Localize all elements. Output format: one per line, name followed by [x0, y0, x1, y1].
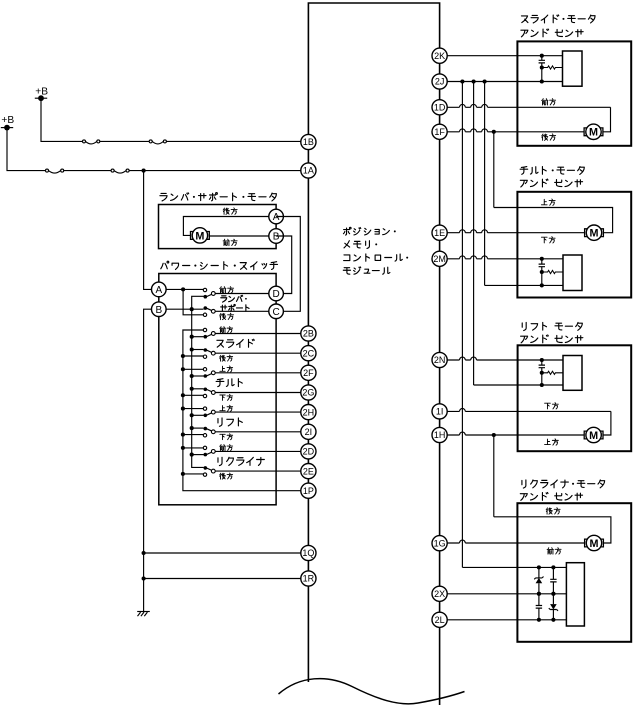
wire pin 1G recliner forward: [440, 540, 585, 543]
wire bus A lumbar to rear contact: [183, 289, 203, 314]
label recliner motor line1: [522, 480, 605, 488]
connector pin 2G: [301, 385, 316, 400]
junction recliner top right: [551, 565, 555, 569]
wire bus A to lift 下方 contact: [183, 434, 203, 436]
connector pin A lumbar: [269, 209, 284, 224]
connector pin 2C: [301, 346, 316, 361]
capacitor C slide sensor: [539, 60, 545, 63]
wire bus 2J-a vertical: [461, 82, 463, 568]
switch slide 後方: [203, 348, 215, 358]
position memory control module U1 box: [308, 3, 439, 705]
wire lumbar A to motor: [183, 217, 276, 236]
capacitor C1 recliner plates: [536, 606, 542, 609]
junction bus B lift top: [190, 413, 194, 417]
connector pin 2E: [301, 464, 316, 479]
svg-text:D: D: [272, 289, 279, 300]
connector pin C switch: [269, 304, 284, 319]
svg-text:B: B: [155, 305, 162, 316]
label module line3: [344, 254, 409, 261]
zener diode ZD1 recliner: [534, 567, 543, 593]
label lift motor line2: [521, 335, 583, 343]
label 前方: [220, 327, 233, 333]
slide motor and sensor box: [517, 41, 631, 145]
power seat switch box: [159, 274, 276, 505]
switch lift 下方: [203, 427, 215, 437]
wire bus 2J-c vertical: [484, 82, 486, 286]
wire lumbar rear pivot to C: [215, 310, 276, 312]
svg-text:2L: 2L: [435, 615, 445, 625]
label rearward recliner: [546, 508, 560, 514]
switch lift 上方: [203, 407, 215, 417]
battery feed +B2: [1, 115, 15, 130]
wire pin 1H lift up: [440, 432, 585, 435]
connector pin 2M: [432, 251, 447, 266]
fuse F4: [111, 169, 129, 173]
svg-text:2G: 2G: [302, 388, 314, 398]
switch tilt 下方: [203, 388, 215, 398]
connector pin 2F: [301, 365, 316, 380]
svg-text:1G: 1G: [434, 538, 446, 548]
label forward lumbar: [223, 239, 237, 245]
wire bus B to tilt 下方 moving: [192, 388, 204, 390]
label lumbar support motor: [160, 193, 277, 201]
label module line2: [344, 241, 377, 249]
junction bus B slide bottom: [190, 347, 194, 351]
svg-text:M: M: [195, 230, 204, 242]
svg-text:1B: 1B: [303, 137, 314, 147]
label slide motor line1: [521, 15, 595, 23]
svg-text:2J: 2J: [435, 77, 445, 87]
label rearward: [220, 313, 234, 319]
wire bus A to tilt 上方 contact: [183, 368, 203, 370]
connector pin 2J: [432, 74, 447, 89]
wire tilt 下方 pivot to pin 2G: [215, 392, 308, 394]
switch tilt 上方: [203, 368, 215, 378]
svg-text:M: M: [590, 538, 599, 550]
capacitor C1 recliner: [538, 594, 540, 606]
wire pin 1D slide forward: [440, 104, 611, 107]
slide sensor column: [541, 56, 543, 61]
junction bus B tilt top: [190, 374, 194, 378]
junction +B feed to switch: [142, 169, 146, 173]
connector pin 1H: [432, 427, 447, 442]
svg-text:2H: 2H: [303, 407, 315, 417]
label slide motor line2: [521, 29, 583, 37]
wire slide 前方 pivot to pin 2B: [215, 333, 308, 335]
svg-text:M: M: [589, 127, 598, 139]
junction bus B slide top: [190, 335, 194, 339]
resistor R lift sensor wiper: [542, 371, 563, 374]
label down tilt: [541, 237, 555, 243]
wire pin 2K to slide sensor: [440, 55, 563, 57]
motor M slide: [584, 124, 603, 139]
junction recliner mid left: [537, 592, 541, 596]
wire switch pin B to ground: [144, 309, 159, 611]
wire +B1 to pin 1B seg3: [166, 140, 308, 142]
connector pin 1I: [432, 404, 447, 419]
fuse F2: [149, 140, 166, 144]
connector pin 2H: [301, 405, 316, 420]
connector pin B switch: [152, 302, 167, 317]
label up lift: [545, 439, 559, 445]
svg-text:A: A: [155, 285, 162, 296]
wire bus B moving contacts: [192, 309, 204, 467]
wire lumbar B to motor: [209, 235, 276, 237]
wire lift 上方 pivot to pin 2H: [215, 411, 308, 413]
junction recliner top left: [537, 565, 541, 569]
connector pin 2X: [432, 586, 447, 601]
svg-text:+B: +B: [1, 115, 14, 126]
wire bus 2J-c to tilt sensor bottom: [485, 284, 563, 286]
connector pin 1A: [301, 163, 316, 178]
wire recliner 前方 pivot to pin 2D: [215, 450, 308, 452]
svg-text:1D: 1D: [434, 103, 446, 113]
junction lift sensor bottom: [540, 383, 544, 387]
svg-text:1R: 1R: [303, 574, 315, 584]
wire pin 2J to slide sensor: [440, 81, 563, 83]
connector pin 1F: [432, 124, 447, 139]
label tilt motor line1: [520, 167, 584, 175]
junction tilt sensor bottom: [540, 283, 544, 287]
label lift motor line1: [522, 322, 582, 330]
label 下方: [220, 394, 233, 400]
wire pin 1I lift down: [440, 409, 611, 412]
lumbar support motor box: [159, 205, 277, 249]
wire bus 1H recliner-rear vertical: [493, 435, 495, 517]
wire lumbar A to switch C: [276, 217, 300, 312]
resistor R slide sensor wiper: [542, 66, 563, 69]
label module line4: [343, 267, 390, 274]
wire pin 2M to tilt sensor: [440, 256, 563, 259]
wire +B1 to pin 1B seg2: [100, 140, 149, 142]
zener diode ZD2 recliner: [549, 594, 558, 620]
switch recliner 後方: [203, 466, 215, 476]
wire bus 2J-b to lift sensor bottom: [474, 384, 563, 386]
svg-text:1I: 1I: [436, 407, 444, 417]
connector pin 2D: [301, 444, 316, 459]
svg-text:1P: 1P: [303, 486, 314, 496]
svg-text:2K: 2K: [434, 51, 445, 61]
junction bus A tilt bottom: [181, 393, 185, 397]
ground symbol: [137, 612, 150, 617]
wire A row to lumbar fwd contact: [159, 288, 204, 290]
lift motor and sensor box: [518, 345, 632, 451]
connector pin A switch: [152, 282, 167, 297]
connector pin B lumbar: [269, 229, 284, 244]
svg-text:2D: 2D: [303, 447, 315, 457]
wire bus A to tilt 下方 contact: [183, 394, 203, 396]
junction bus A lumbar: [181, 287, 185, 291]
switch recliner 前方: [203, 446, 215, 456]
junction bus B lumbar: [190, 307, 194, 311]
capacitor C2 recliner plates: [550, 579, 556, 582]
junction bus A recliner bottom: [181, 472, 185, 476]
wire bus B to recliner 前方 moving: [192, 454, 204, 456]
connector pin 2B: [301, 326, 316, 341]
label power seat switch: [161, 261, 278, 269]
connector pin 1P: [301, 483, 316, 498]
label module line1: [343, 227, 395, 235]
svg-text:2M: 2M: [433, 254, 446, 264]
connector pin 1B: [301, 134, 316, 149]
label rearward lumbar: [223, 208, 237, 214]
connector pin 2K: [432, 48, 447, 63]
svg-text:1F: 1F: [434, 127, 445, 137]
connector pin 1D: [432, 100, 447, 115]
wire bus B to slide 前方 moving: [192, 336, 204, 338]
wire +B2 to pin 1A seg1: [7, 128, 46, 171]
label up tilt: [541, 199, 555, 205]
label tilt motor line2: [520, 179, 582, 187]
wire +B2 to pin 1A seg3: [129, 170, 308, 172]
label down lift: [545, 403, 559, 409]
wire pin 1E tilt down: [440, 230, 585, 233]
capacitor C lift sensor: [539, 365, 545, 368]
wire slide forward down to motor: [603, 107, 611, 132]
junction 1R: [142, 576, 146, 580]
recliner motor and sensor box: [517, 503, 631, 642]
svg-text:A: A: [273, 212, 280, 223]
svg-text:B: B: [273, 232, 280, 243]
wire to pin 1Q: [144, 552, 308, 554]
connector pin 1R: [301, 571, 316, 586]
wire pin 2X to recliner sensor: [440, 593, 567, 595]
tilt motor and sensor box: [517, 192, 631, 298]
resistor R tilt sensor wiper: [542, 270, 563, 273]
label rearward slide: [542, 134, 556, 140]
junction bus A lift bottom: [181, 433, 185, 437]
svg-text:2C: 2C: [303, 348, 315, 358]
label group recliner: [218, 457, 264, 465]
switch slide 前方: [203, 328, 215, 338]
switch lumbar rearward: [203, 306, 215, 316]
wire lift down to motor: [603, 411, 611, 435]
junction bus B lift bottom: [190, 426, 194, 430]
wire bus B to slide 後方 moving: [192, 349, 204, 351]
label forward slide: [542, 99, 556, 105]
label group lift: [218, 418, 242, 426]
svg-text:2E: 2E: [303, 466, 314, 476]
lift sensor column: [541, 360, 543, 365]
svg-text:M: M: [590, 228, 599, 240]
label 後方: [220, 355, 233, 361]
wire bus A to recliner 後方 contact: [183, 473, 203, 475]
label 上方: [220, 405, 233, 411]
svg-text:2F: 2F: [303, 368, 314, 378]
motor M lumbar: [191, 228, 210, 243]
fuse F3: [46, 169, 64, 173]
wire bus 2J-a to recliner sensor top: [462, 566, 566, 568]
wire bus A contacts to pin 1P: [183, 330, 308, 491]
connector pin 2L: [432, 612, 447, 627]
label group tilt: [216, 379, 242, 387]
wire bus B to lift 下方 moving: [192, 427, 204, 429]
connector pin 2I: [301, 424, 316, 439]
wire bus 1F tilt-up vertical: [493, 132, 495, 208]
wire tilt up to motor: [494, 208, 613, 233]
motor M tilt: [585, 225, 604, 240]
capacitor C2 recliner: [552, 567, 554, 579]
wire bus A to recliner 前方 contact: [183, 447, 203, 449]
wire pin 1F slide rearward: [440, 129, 584, 132]
junction bus B tilt bottom: [190, 387, 194, 391]
connector pin 1G: [432, 536, 447, 551]
wire tilt 上方 pivot to pin 2F: [215, 372, 308, 374]
switch lumbar forward: [203, 288, 215, 298]
svg-text:2N: 2N: [434, 355, 446, 365]
position sensor lift body: [563, 356, 582, 391]
label group slide: [217, 339, 254, 347]
break wave: [279, 679, 465, 704]
motor M lift: [584, 427, 603, 442]
wire +B2 to pin 1A seg2: [64, 170, 111, 172]
label 前方: [220, 445, 233, 451]
junction bus B recliner top: [190, 453, 194, 457]
junction recliner mid right: [551, 592, 555, 596]
capacitor C tilt sensor: [539, 264, 545, 267]
motor M recliner: [585, 535, 604, 550]
wire +B1 to pin 1B seg1: [41, 98, 83, 141]
label forward recliner: [547, 548, 561, 554]
position sensor tilt body: [563, 255, 582, 291]
battery feed +B1: [35, 86, 48, 101]
wire lumbar fwd pivot to D: [215, 293, 276, 295]
svg-text:1H: 1H: [434, 430, 446, 440]
wire lift 下方 pivot to pin 2I: [215, 431, 308, 433]
junction bus A recliner top: [181, 446, 185, 450]
wire bus 2J-b vertical: [473, 82, 475, 386]
wire to pin 1R: [144, 578, 308, 580]
wire bus A to lift 上方 contact: [183, 408, 203, 410]
junction bus A tilt top: [181, 367, 185, 371]
connector pin 1Q: [301, 545, 316, 560]
wire bus A to slide 後方 contact: [183, 355, 203, 357]
fuse F1: [83, 140, 100, 144]
junction bus A lift top: [181, 407, 185, 411]
label lumbar line1: [221, 295, 247, 302]
tilt sensor column: [541, 259, 543, 264]
junction bus A slide bottom: [181, 354, 185, 358]
wire lumbar B to switch D: [276, 236, 292, 294]
junction 1Q: [142, 551, 146, 555]
label forward: [220, 287, 234, 293]
label 後方: [220, 473, 233, 479]
connector pin 1E: [432, 225, 447, 240]
wire bus B to lift 上方 moving: [192, 414, 204, 416]
svg-text:2B: 2B: [303, 329, 314, 339]
wire lumbar fwd moving to bus B: [192, 296, 206, 309]
wire recliner 後方 pivot to pin 2E: [215, 470, 308, 472]
position sensor slide body: [563, 51, 583, 86]
wire B row to lumbar rear moving: [159, 308, 204, 310]
svg-text:2X: 2X: [434, 589, 445, 599]
svg-text:M: M: [589, 430, 598, 442]
svg-text:2I: 2I: [305, 427, 313, 437]
wire bus B to tilt 上方 moving: [192, 375, 204, 377]
connector pin 2N: [432, 352, 447, 367]
svg-text:1A: 1A: [303, 166, 314, 176]
wire pin 2L to recliner sensor: [440, 619, 567, 621]
wire slide 後方 pivot to pin 2C: [215, 352, 308, 354]
svg-text:1E: 1E: [434, 228, 445, 238]
position sensor recliner body: [566, 563, 584, 626]
svg-text:C: C: [272, 307, 279, 318]
label lumbar line2: [221, 304, 249, 311]
wire feed to switch pin A: [144, 171, 159, 290]
connector pin D switch: [269, 286, 284, 301]
wire pin 2N to lift sensor: [440, 357, 563, 360]
label 上方: [220, 366, 233, 372]
svg-text:1Q: 1Q: [302, 548, 314, 558]
wire recliner rearward to motor: [494, 517, 611, 543]
label recliner motor line2: [520, 492, 582, 500]
label 下方: [220, 434, 233, 440]
